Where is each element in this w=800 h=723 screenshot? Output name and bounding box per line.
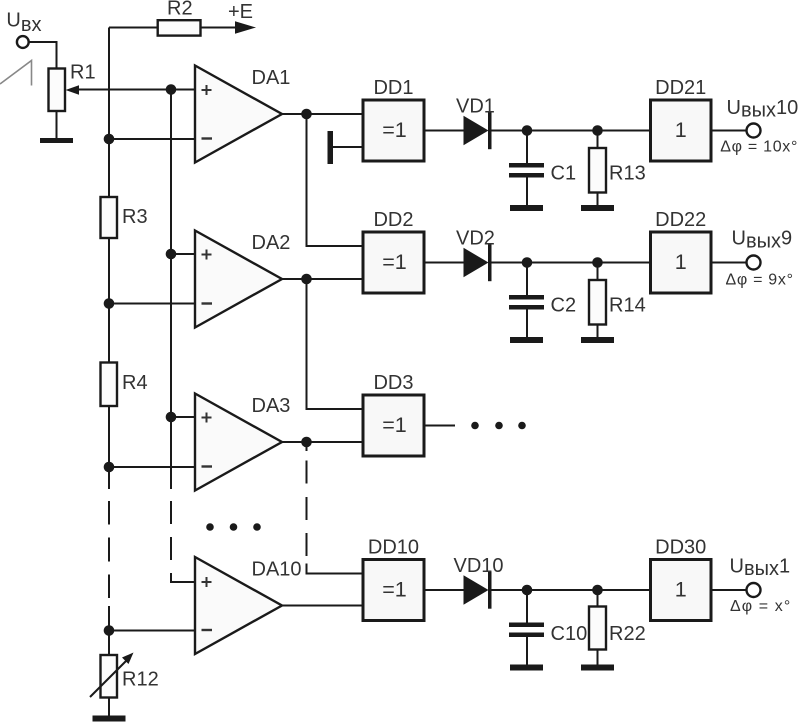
svg-text:R13: R13 xyxy=(609,163,646,185)
svg-text:=1: =1 xyxy=(382,578,407,602)
ground xyxy=(93,716,126,722)
wire dashed to DD10 xyxy=(306,461,308,557)
input terminal UBX xyxy=(17,36,29,48)
wire DA3 output xyxy=(282,441,363,443)
diode VD10 xyxy=(464,575,489,604)
node DA2 out xyxy=(301,274,312,285)
DA2 minus pin xyxy=(202,302,213,304)
svg-text:DA2: DA2 xyxy=(252,232,291,254)
svg-text:Δφ = x°: Δφ = x° xyxy=(730,598,791,615)
buffer DD21 xyxy=(651,100,712,161)
wire xyxy=(492,589,651,591)
ground xyxy=(581,337,614,343)
svg-text:VD10: VD10 xyxy=(454,555,504,577)
output terminal UВЫХ1 xyxy=(747,583,761,597)
diode VD2 xyxy=(464,248,489,277)
+E supply arrow xyxy=(235,21,256,33)
svg-text:Uвых9: Uвых9 xyxy=(732,228,793,253)
wire xyxy=(711,262,747,264)
wire xyxy=(56,111,58,139)
resistor R4 xyxy=(101,363,118,407)
svg-text:Uвх: Uвх xyxy=(6,9,41,36)
node C10 junction xyxy=(522,585,533,596)
DA3 minus pin xyxy=(202,465,213,467)
svg-text:=1: =1 xyxy=(382,250,407,274)
buffer DD22 xyxy=(651,232,712,293)
wire chain solid xyxy=(108,28,110,490)
wire (DA3 + input) xyxy=(171,416,195,418)
node chain-DA2 minus xyxy=(104,298,115,309)
DA10 plus pin xyxy=(202,577,212,587)
svg-text:Uвых1: Uвых1 xyxy=(730,556,791,581)
node signal-DA1 plus xyxy=(166,84,177,95)
svg-text:DD3: DD3 xyxy=(373,372,413,394)
resistor R3 xyxy=(101,197,118,238)
svg-text:R3: R3 xyxy=(122,206,148,228)
node R13 junction xyxy=(592,125,603,136)
wire to DD10 top input xyxy=(307,564,364,574)
wire xyxy=(201,27,237,29)
svg-text:R1: R1 xyxy=(70,62,96,84)
wire chain solid lower xyxy=(108,606,110,655)
op-amp DA3 xyxy=(195,394,282,491)
wire (wiper to DA1 +) xyxy=(78,89,195,91)
capacitor C10 xyxy=(526,590,528,623)
svg-text:Δφ = 10x°: Δφ = 10x° xyxy=(720,139,798,156)
wire (DA1 - input) xyxy=(109,138,195,140)
node signal-DA3 plus xyxy=(166,412,177,423)
resistor R13 xyxy=(597,131,599,149)
wire (DA10 - input) xyxy=(109,630,195,632)
DA3 plus pin xyxy=(202,413,212,423)
wire DD3 output stub xyxy=(424,425,455,427)
wire DA1 output xyxy=(282,113,363,115)
diode VD1 xyxy=(464,116,489,145)
op-amp DA2 xyxy=(195,231,282,328)
wire (DA3 - input) xyxy=(109,466,195,468)
svg-text:R22: R22 xyxy=(609,623,646,645)
wire xyxy=(711,589,747,591)
svg-text:DD1: DD1 xyxy=(373,77,413,99)
svg-text:C2: C2 xyxy=(551,295,577,317)
DA1 plus pin xyxy=(202,85,212,95)
svg-text:DD22: DD22 xyxy=(655,209,706,231)
svg-text:DD10: DD10 xyxy=(368,537,419,559)
svg-text:+E: +E xyxy=(228,1,253,23)
ellipsis dots between DA3 and DA10 xyxy=(206,523,214,531)
R1 wiper arrow xyxy=(66,85,80,95)
op-amp DA1 xyxy=(195,66,282,163)
resistor R22 xyxy=(597,590,599,607)
XOR gate DD1 xyxy=(363,100,424,161)
wire signal dashed xyxy=(170,501,172,560)
output terminal UВЫХ10 xyxy=(747,124,761,138)
node C1 junction xyxy=(522,125,533,136)
XOR gate DD3 xyxy=(363,395,424,456)
wire DD10 output xyxy=(424,589,464,591)
ground xyxy=(510,665,543,671)
svg-text:C1: C1 xyxy=(551,163,577,185)
node chain-DA3 minus xyxy=(104,462,115,473)
svg-text:Uвых10: Uвых10 xyxy=(727,97,799,122)
wire (DA2 + input) xyxy=(171,253,195,255)
node DA3 out xyxy=(301,437,312,448)
XOR gate DD10 xyxy=(363,560,424,621)
svg-text:C10: C10 xyxy=(551,623,588,645)
node chain-DA10 minus xyxy=(104,625,115,636)
svg-text:DD2: DD2 xyxy=(373,209,413,231)
wire DA10 output xyxy=(282,605,363,607)
resistor R2 xyxy=(158,20,201,35)
wire xyxy=(492,262,651,264)
ellipsis dots after DD3 xyxy=(471,422,479,430)
svg-text:DA3: DA3 xyxy=(252,395,291,417)
ground xyxy=(510,337,543,343)
wire chain dashed xyxy=(108,501,110,598)
wire DD1 output xyxy=(424,130,464,132)
buffer DD30 xyxy=(651,560,712,621)
wire xyxy=(108,698,110,717)
DA1 minus pin xyxy=(202,137,213,139)
svg-text:DA10: DA10 xyxy=(252,559,302,581)
wire DD2 output xyxy=(424,262,464,264)
svg-text:1: 1 xyxy=(675,578,687,602)
wire xyxy=(29,42,56,69)
svg-text:DD21: DD21 xyxy=(655,77,706,99)
node R14 junction xyxy=(592,257,603,268)
svg-text:R4: R4 xyxy=(122,372,148,394)
svg-text:R2: R2 xyxy=(167,0,193,20)
node DA1 out xyxy=(301,109,312,120)
wire xyxy=(711,130,747,132)
resistor R14 xyxy=(597,263,599,281)
wire DA2 out to DD3 xyxy=(307,279,364,409)
svg-text:=1: =1 xyxy=(382,413,407,437)
wire DA2 output xyxy=(282,278,363,280)
wire xyxy=(109,27,158,29)
ground xyxy=(581,205,614,211)
DA2 plus pin xyxy=(202,250,212,260)
svg-text:DD30: DD30 xyxy=(655,537,706,559)
svg-text:R12: R12 xyxy=(122,669,159,691)
svg-text:VD1: VD1 xyxy=(456,96,495,118)
capacitor C1 xyxy=(526,131,528,164)
resistor R12 (variable) xyxy=(101,655,118,698)
DA10 minus pin xyxy=(202,629,213,631)
op-amp DA10 xyxy=(195,557,282,654)
wire signal solid xyxy=(170,90,172,490)
svg-text:1: 1 xyxy=(675,250,687,274)
svg-text:1: 1 xyxy=(675,118,687,142)
resistor R1 (potentiometer) xyxy=(49,69,66,112)
ground xyxy=(40,138,73,143)
node R22 junction xyxy=(592,585,603,596)
wire signal to DA10 xyxy=(171,573,195,582)
node C2 junction xyxy=(522,257,533,268)
wire xyxy=(492,130,651,132)
svg-text:R14: R14 xyxy=(609,295,646,317)
output terminal UВЫХ9 xyxy=(747,256,761,270)
ground xyxy=(581,665,614,671)
node signal-DA2 plus xyxy=(166,249,177,260)
wire (DA2 - input) xyxy=(109,303,195,305)
wire xyxy=(333,146,363,148)
wire DA1 out to DD2 xyxy=(307,114,364,246)
sawtooth input waveform xyxy=(0,61,32,86)
svg-text:DA1: DA1 xyxy=(252,67,291,89)
ground xyxy=(510,205,543,211)
svg-text:=1: =1 xyxy=(382,118,407,142)
XOR gate DD2 xyxy=(363,232,424,293)
ground bar (DD1 second input) xyxy=(328,131,334,164)
svg-text:VD2: VD2 xyxy=(456,228,495,250)
node chain-DA1 minus xyxy=(104,134,115,145)
capacitor C2 xyxy=(526,263,528,296)
svg-text:Δφ = 9x°: Δφ = 9x° xyxy=(726,272,794,289)
wire DA3 out down solid xyxy=(306,442,308,451)
